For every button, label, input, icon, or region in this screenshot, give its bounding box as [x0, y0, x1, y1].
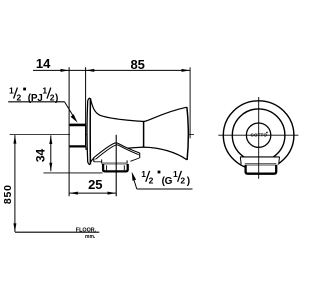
waist ring: [143, 121, 145, 147]
nipple PJ1/2: [70, 125, 86, 148]
outlet collar right edge: [126, 160, 128, 163]
bell left rim outer edge: [87, 98, 90, 165]
front view crosshair horizontal (over button): [246, 134, 271, 136]
volcano left base line: [94, 161, 102, 163]
dimension 34 line: [50, 135, 52, 171]
arrow 25 left: [69, 192, 78, 195]
volcano left edge: [93, 158, 95, 162]
centerline axis (side view): [10, 133, 194, 135]
PJ leader line: [65, 102, 74, 117]
bell top profile: [90, 98, 186, 121]
arrow 850 top: [13, 135, 16, 144]
svg-text:85: 85: [130, 57, 144, 72]
extension line x=190: [189, 67, 191, 138]
arrow 14 left (pointing right): [61, 69, 70, 72]
svg-text:): ): [187, 176, 190, 187]
bell right rim: [187, 107, 188, 160]
svg-text:14: 14: [36, 56, 51, 71]
front view crosshair vertical: [258, 97, 260, 179]
svg-text:34: 34: [34, 149, 48, 163]
front view button circle: [246, 123, 270, 147]
PJ leader arrowhead: [71, 114, 78, 122]
outlet volcano white mask: [93, 143, 139, 163]
svg-text:FLOOR.: FLOOR.: [76, 227, 97, 233]
nipple corner edge below: [85, 148, 87, 151]
svg-text:mm.: mm.: [85, 234, 96, 240]
arrow 34 top: [49, 136, 52, 145]
G leader line: [134, 179, 137, 190]
front view middle circle: [232, 109, 285, 162]
bell body white fill: [87, 98, 189, 165]
extension line x=85.5: [85, 67, 87, 124]
arrow 25 right: [108, 192, 117, 195]
svg-text:1: 1: [173, 169, 178, 179]
bell bottom profile: [90, 147, 187, 164]
dimension 14 tail line: [33, 69, 69, 71]
svg-text:850: 850: [2, 184, 14, 204]
G label underline: [137, 188, 193, 190]
volcano right base diagonal: [130, 158, 139, 161]
front hex nut: [245, 165, 276, 174]
svg-text:2: 2: [180, 176, 185, 186]
svg-text:1: 1: [42, 86, 47, 96]
hex nut (side view): [102, 164, 128, 172]
PJ label underline: [8, 101, 64, 103]
dimension 850 line: [14, 135, 16, 232]
label PJ thread: 1/2"(PJ 1/2): [9, 86, 58, 104]
bell left rim inner edge: [89, 98, 91, 164]
outlet collar left edge: [101, 159, 103, 163]
label G thread: 1/2"(G 1/2): [141, 169, 190, 187]
front view outlet trapezoid: [240, 157, 279, 165]
svg-text:(G: (G: [162, 176, 173, 187]
G leader arrowhead: [132, 172, 136, 181]
collar gray band: [102, 162, 127, 164]
volcano outer dome: [93, 143, 139, 158]
floor line: [15, 231, 99, 233]
dimension 25 line: [69, 192, 116, 194]
front view crosshair horizontal: [218, 134, 298, 136]
front view outer circle: [223, 101, 294, 170]
arrow 85 right (pointing right): [182, 69, 191, 72]
dimension 14 span line: [69, 69, 86, 71]
arrow 14/85 shared (pointing left): [86, 69, 95, 72]
dimension 85 line: [86, 69, 190, 71]
svg-text:2: 2: [149, 176, 154, 186]
front nut gray band: [245, 163, 277, 165]
svg-text:2: 2: [17, 92, 22, 102]
volcano inner dome: [95, 145, 138, 160]
extension line 34 bottom: [44, 172, 103, 174]
svg-text:1: 1: [141, 169, 146, 179]
outlet axis line: [115, 135, 117, 197]
arrow 34 bottom: [49, 163, 52, 172]
svg-text:25: 25: [88, 177, 102, 192]
svg-text:1: 1: [9, 86, 14, 96]
volcano right edge: [139, 153, 141, 158]
extension line wall x=69: [68, 67, 70, 196]
svg-text:COTTO: COTTO: [251, 133, 268, 138]
arrow 850 bottom: [13, 223, 16, 232]
